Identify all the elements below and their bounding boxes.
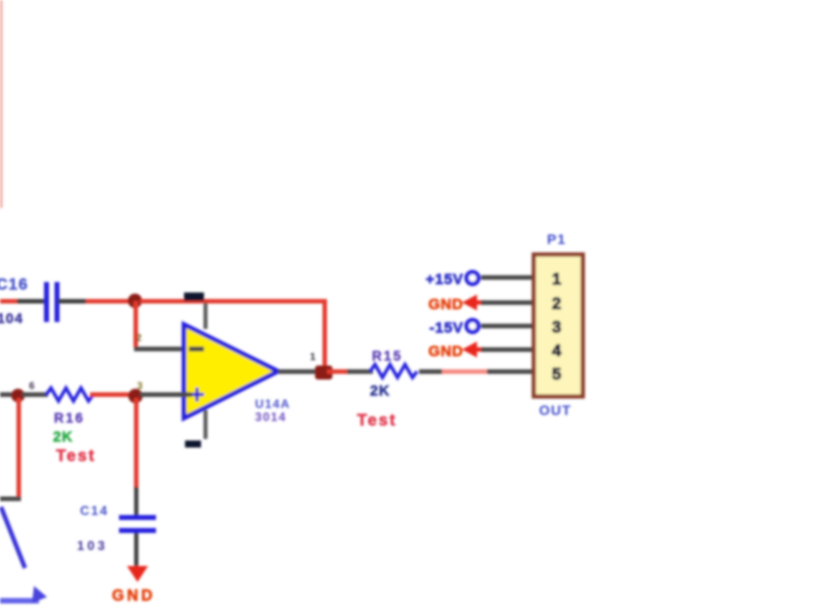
node D junction dot — [128, 389, 142, 403]
svg-text:2K: 2K — [370, 384, 390, 400]
wire: red vertical from node C down — [17, 398, 22, 498]
svg-text:GND: GND — [428, 296, 463, 313]
svg-text:104: 104 — [0, 310, 23, 326]
wire: blue horizontal segment at bottom edge — [0, 598, 39, 604]
wire: red segment from C16 to node A — [86, 299, 132, 304]
svg-text:6: 6 — [29, 381, 35, 392]
svg-text:-15V: -15V — [429, 320, 463, 337]
ground symbol red arrow — [127, 566, 148, 582]
wire: top net red segment at left edge — [0, 299, 19, 304]
svg-text:GND: GND — [428, 343, 463, 360]
svg-text:2K: 2K — [53, 430, 73, 446]
wire: gray elbow at bottom left — [0, 497, 21, 502]
svg-text:P1: P1 — [547, 231, 566, 247]
wire: gray lead from C14 to ground — [134, 533, 138, 566]
wire: red vertical from node D to C14 — [134, 398, 139, 489]
power symbol -15V circle — [467, 320, 479, 332]
wire: pink highlighted segment of pin5 net — [442, 369, 488, 374]
wire: blue diagonal segment (clipped component) — [1, 507, 25, 568]
wire: op-amp V+ stub — [204, 303, 208, 329]
svg-text:OUT: OUT — [539, 402, 572, 418]
wire: lower input net gray segment at left edge — [0, 392, 14, 397]
wire: red segment from output junction — [327, 369, 349, 374]
wire: pin2 gray wire — [481, 300, 535, 305]
pin number 4 black dash below op-amp — [185, 441, 201, 448]
power symbol +15V circle — [467, 272, 479, 284]
svg-text:2: 2 — [136, 333, 142, 344]
svg-text:R16: R16 — [54, 411, 85, 426]
svg-text:C16: C16 — [0, 277, 28, 294]
pin number 8 black dash above op-amp — [184, 293, 204, 302]
svg-text:3014: 3014 — [255, 410, 287, 424]
svg-text:C14: C14 — [80, 503, 109, 518]
svg-text:2: 2 — [552, 295, 561, 313]
op-amp minus marker — [189, 347, 204, 352]
wire: feedback right red vertical — [323, 299, 328, 369]
wire: pin1 gray wire — [481, 275, 535, 280]
ground symbol GND arrow pin4 — [462, 342, 477, 358]
svg-text:103: 103 — [77, 538, 108, 553]
svg-text:GND: GND — [112, 588, 155, 605]
capacitor C16 plates — [44, 282, 49, 322]
resistor R16 zigzag — [46, 388, 93, 401]
svg-text:3: 3 — [137, 381, 143, 392]
wire: op-amp output gray lead — [278, 369, 318, 374]
wire: feedback top red segment — [140, 299, 327, 304]
svg-text:Test: Test — [56, 447, 96, 465]
wire: red vertical from node A to inverting input — [134, 301, 139, 347]
svg-text:5: 5 — [552, 366, 561, 384]
node B output junction dot — [315, 366, 333, 380]
resistor R15 zigzag — [370, 365, 417, 378]
wire: gray lead right of R15 — [419, 369, 443, 374]
svg-text:1: 1 — [552, 271, 561, 289]
op-amp plus marker — [190, 388, 204, 402]
node A junction dot — [128, 294, 142, 308]
wire: gray inverting input lead — [134, 347, 192, 352]
wire: C16 right gray lead — [58, 299, 88, 304]
capacitor C14 plates — [119, 515, 156, 520]
wire: pin3 gray wire — [481, 324, 535, 329]
wire: clipped red vertical line at far left edge — [0, 0, 3, 208]
svg-text:Test: Test — [357, 412, 397, 430]
wire: gray lead into R15 — [347, 369, 373, 374]
svg-text:U14A: U14A — [255, 397, 290, 411]
svg-text:3: 3 — [552, 319, 561, 337]
connector P1 body — [534, 255, 583, 397]
op-amp U14A triangle — [184, 325, 278, 419]
svg-text:4: 4 — [552, 342, 562, 360]
node C junction dot — [11, 389, 25, 403]
wire: gray lead into resistor R16 — [22, 392, 48, 397]
wire: gray segment into connector pin 5 — [487, 369, 535, 374]
arrowhead of blue wire — [32, 586, 47, 603]
wire: red segment from R16 to node D — [90, 392, 132, 397]
ground symbol GND arrow pin2 — [462, 295, 477, 311]
wire: pin4 gray wire — [481, 347, 535, 352]
wire: gray non-inverting input lead — [140, 392, 192, 397]
wire: C16 left gray lead — [17, 299, 46, 304]
svg-text:1: 1 — [310, 352, 316, 363]
wire: op-amp V- stub — [204, 410, 208, 439]
svg-text:+15V: +15V — [426, 271, 464, 288]
svg-text:R15: R15 — [372, 349, 403, 364]
wire: gray lead into C14 — [134, 487, 138, 517]
